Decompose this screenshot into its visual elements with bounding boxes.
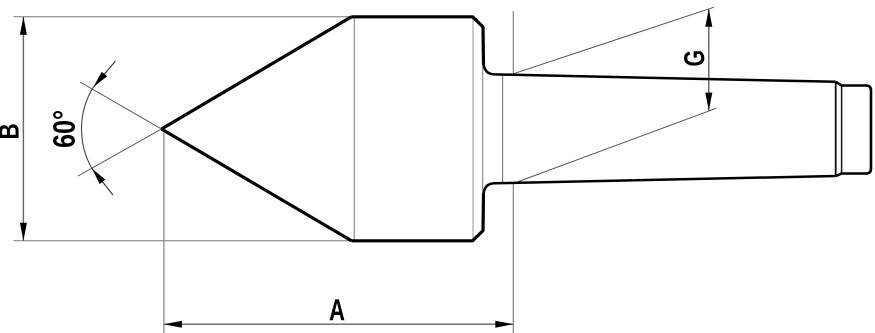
shank top edge with neck fillet [484,63,836,82]
arrowhead B bottom [20,223,27,241]
wire: G oblique extension top [513,7,714,74]
wire: arc arrow tail top [93,61,115,87]
node: body end face line [472,17,474,241]
dimension line G [708,9,710,111]
wire: A extension line left (cone tip projection) [163,130,165,333]
wire: B extension line bottom [14,240,353,242]
node: taper start line inside shank [502,75,504,184]
dimension line B [22,17,24,241]
wire: A extension line right [512,184,514,333]
body bottom edge + chamfer + neck [352,193,484,241]
label G [684,51,704,65]
wire: B extension line top [14,16,352,18]
cone top edge [162,17,352,129]
taper big end face line [835,82,837,176]
body top edge + chamfer + neck right vertical [352,17,484,65]
wire: gauge-plane extension above shank [512,11,514,74]
dimension line A [164,323,513,325]
arrowhead arc bottom [92,169,105,185]
label 60deg [53,111,75,147]
label B [0,124,19,138]
end cap outline [836,82,871,176]
wire: angle extension line upper-left (bottom cone edge extended) [80,82,162,129]
label A [330,299,345,320]
arrowhead arc top [93,72,107,87]
outline: lathe centre cone and cylindrical body [162,17,484,241]
node: cone-body junction line [353,17,355,241]
cone bottom edge [162,129,352,241]
arrowhead A left [164,321,182,328]
wire: arc arrow tail bottom [92,169,113,195]
wire: angle extension line lower-left (top cone edge extended) [78,129,162,176]
outline: Morse taper shank [484,63,836,196]
node: neck chamfer projection line [482,27,484,231]
dimension arc 60 degrees [82,87,94,169]
wire: G oblique extension bottom [514,108,717,183]
arrowhead A right [495,321,513,328]
end cap face line [841,86,843,174]
arrowhead G top [705,9,712,27]
arrowhead B top [20,17,27,35]
shank bottom edge with neck fillet [484,176,836,195]
arrowhead G bottom [705,93,712,111]
